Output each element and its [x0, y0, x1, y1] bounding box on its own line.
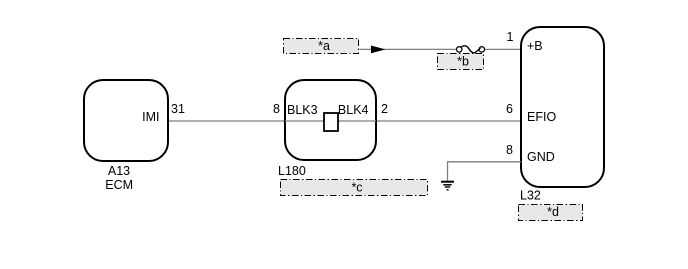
wire IMI to EFIO	[168, 120, 522, 122]
svg-text:L180: L180	[278, 164, 306, 178]
svg-text:*d: *d	[547, 205, 559, 219]
svg-text:ECM: ECM	[105, 178, 133, 192]
note box *b	[438, 54, 484, 70]
noise filter block L32	[521, 27, 604, 187]
svg-text:*b: *b	[457, 54, 469, 68]
junction connector block L180	[285, 80, 376, 160]
in-line connector square	[324, 113, 338, 131]
svg-text:1: 1	[507, 30, 514, 44]
svg-text:8: 8	[273, 102, 280, 116]
arrow from *a	[371, 46, 386, 54]
svg-text:L32: L32	[520, 188, 541, 202]
wire inside L180	[285, 120, 376, 122]
svg-text:+B: +B	[527, 39, 543, 53]
fuse *b right terminal circle	[479, 47, 484, 52]
ground symbol	[441, 182, 454, 190]
svg-text:*c: *c	[351, 181, 362, 195]
fuse wire to +B	[484, 48, 521, 50]
note box *a	[284, 39, 359, 54]
svg-text:*a: *a	[318, 39, 330, 53]
svg-text:6: 6	[506, 102, 513, 116]
note box *d	[519, 205, 583, 221]
svg-text:EFIO: EFIO	[527, 110, 556, 124]
svg-text:31: 31	[171, 102, 185, 116]
svg-text:GND: GND	[527, 150, 555, 164]
svg-text:8: 8	[506, 143, 513, 157]
fuse *b left terminal circle	[457, 47, 462, 52]
svg-text:IMI: IMI	[142, 110, 159, 124]
svg-text:2: 2	[381, 102, 388, 116]
wire *a to fuse	[360, 48, 457, 50]
wire GND to ground	[448, 162, 522, 181]
svg-text:BLK4: BLK4	[338, 103, 369, 117]
ECM block A13	[84, 80, 168, 161]
fuse *b element wave	[461, 46, 481, 53]
note box *c	[281, 180, 428, 196]
svg-text:A13: A13	[108, 164, 130, 178]
svg-text:BLK3: BLK3	[287, 103, 318, 117]
